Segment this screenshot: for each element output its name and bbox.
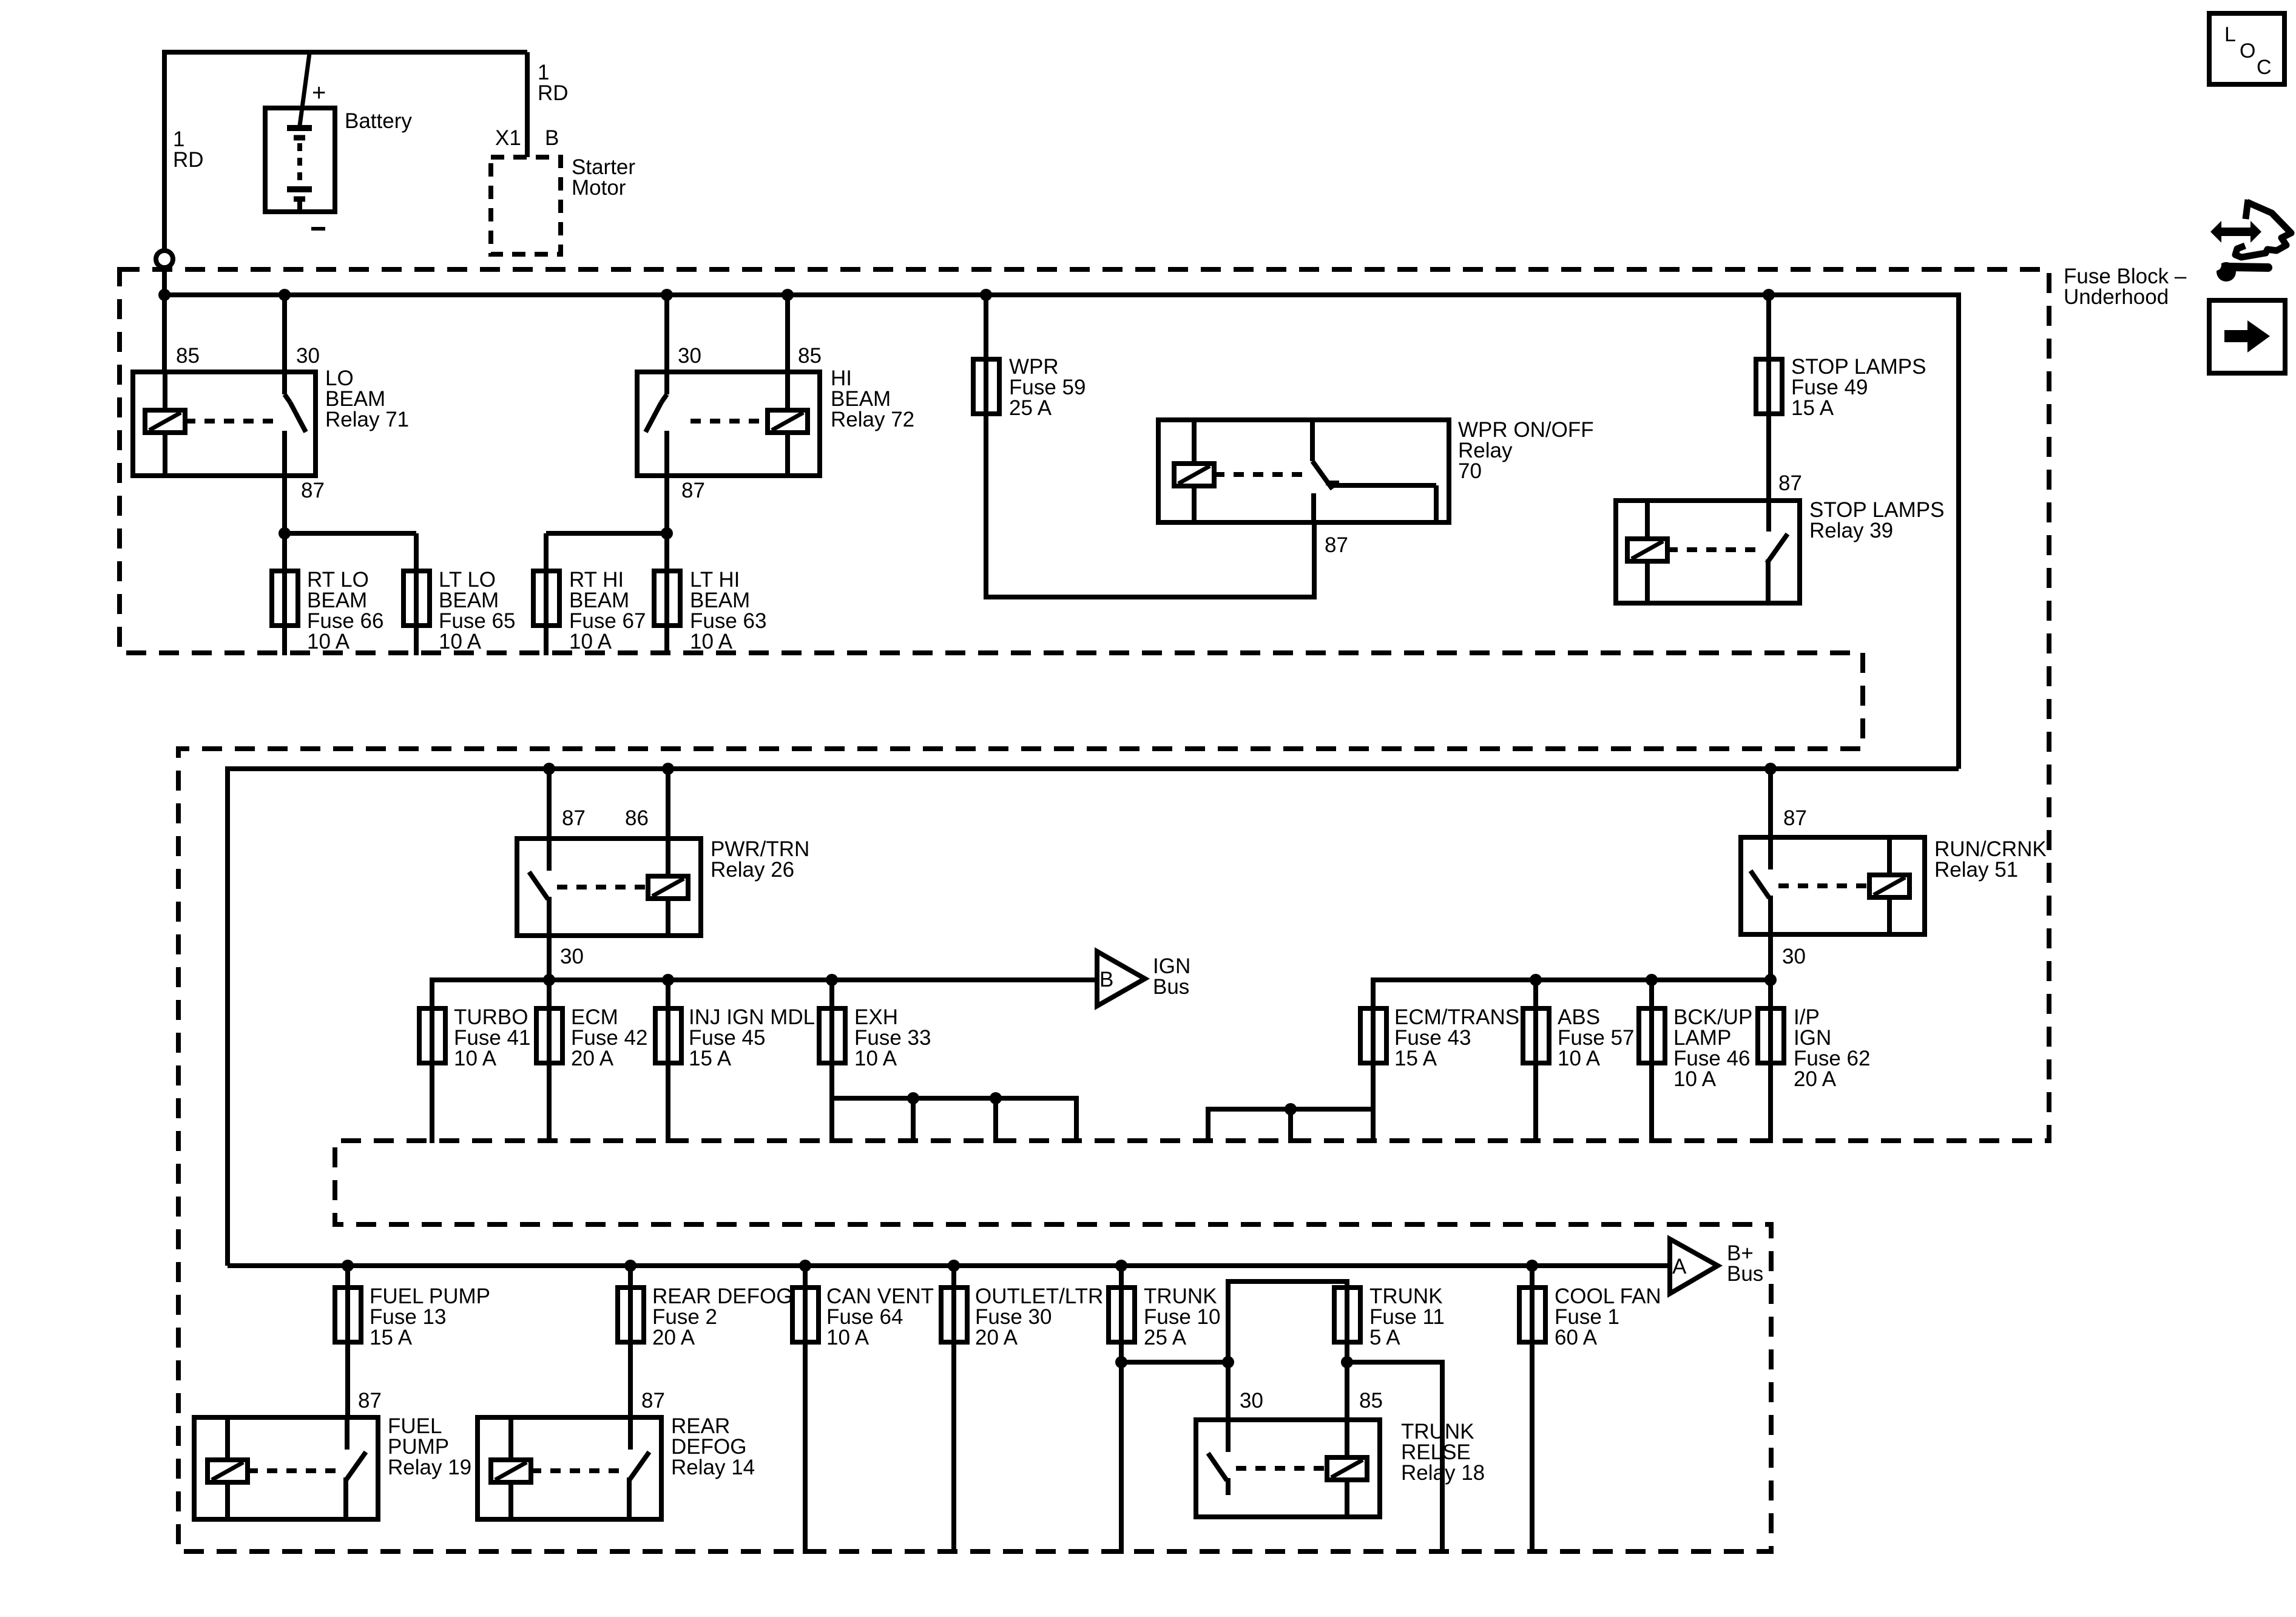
wire starter feed drop — [525, 52, 530, 157]
wire relay71 pin87 — [282, 476, 287, 533]
fuse block underhood dashed outline — [120, 269, 2049, 1551]
svg-text:Battery: Battery — [345, 109, 412, 133]
wire relay26 pin87 drop — [547, 769, 552, 839]
svg-text:25 A: 25 A — [1009, 396, 1052, 420]
svg-text:Relay 51: Relay 51 — [1934, 858, 2018, 882]
wire exh out d drop — [1074, 1096, 1079, 1143]
wire relay72 pin30 drop — [664, 295, 669, 372]
svg-text:RD: RD — [538, 81, 569, 105]
relay R18 TRUNK RELSE — [1196, 1420, 1380, 1517]
relay R39 STOP LAMPS — [1616, 501, 1800, 603]
wire fuse1 output — [1530, 1342, 1535, 1554]
wire exh out c drop — [993, 1098, 998, 1143]
wire exh splice bar — [832, 1096, 1076, 1101]
wire fuse67 output — [544, 571, 549, 655]
relay R19 FUEL PUMP — [194, 1417, 378, 1519]
node ign fuse45 — [662, 974, 674, 986]
fuse F11 TRUNK — [1334, 1288, 1360, 1342]
wire fuse11 top link — [1226, 1279, 1347, 1284]
wire left feed drop — [225, 766, 230, 1266]
svg-text:10 A: 10 A — [690, 630, 733, 653]
wire fuse49 output — [1766, 414, 1771, 501]
wire fuse30 output — [951, 1342, 956, 1554]
wire fuse41 drop — [430, 977, 434, 1068]
svg-text:10 A: 10 A — [1673, 1067, 1717, 1091]
fuse F13 FUEL PUMP — [335, 1288, 361, 1342]
svg-text:Relay 39: Relay 39 — [1809, 519, 1893, 542]
wire fuse62 output — [1768, 1063, 1773, 1143]
wire fuse63 output — [664, 533, 669, 655]
wire fuse65 stub — [414, 533, 419, 626]
svg-text:60 A: 60 A — [1555, 1326, 1598, 1349]
fuse F64 CAN VENT — [792, 1288, 819, 1342]
wire battery top feed — [164, 50, 527, 55]
wire hi beam fuse link — [546, 531, 667, 536]
svg-text:87: 87 — [1325, 533, 1348, 557]
wire relay72 pin85 drop — [785, 295, 790, 372]
svg-text:10 A: 10 A — [307, 630, 350, 653]
wire fuse2 output — [628, 1342, 633, 1417]
relay R72 HI BEAM — [637, 372, 820, 476]
node relay71 output — [279, 527, 291, 539]
svg-text:86: 86 — [625, 806, 649, 830]
fuse F33 EXH — [819, 1008, 845, 1063]
svg-text:A: A — [1672, 1255, 1687, 1278]
wire fuse66 output — [282, 533, 287, 655]
node bus2 fuse57 — [1530, 974, 1542, 986]
node bus relay72 pin85 — [782, 289, 794, 301]
wire relay72 pin87 — [664, 476, 669, 533]
node fuse10 splice — [1115, 1356, 1127, 1368]
relay R26 PWR/TRN — [517, 839, 701, 936]
wire relay70 pin87 riser — [1312, 522, 1317, 599]
bus triangle A B+ — [1670, 1239, 1718, 1294]
relay R51 RUN/CRNK — [1741, 837, 1925, 934]
svg-text:Bus: Bus — [1727, 1262, 1763, 1286]
battery — [265, 108, 335, 212]
svg-text:10 A: 10 A — [826, 1326, 869, 1349]
svg-text:87: 87 — [681, 479, 705, 502]
svg-text:Relay 71: Relay 71 — [325, 408, 409, 431]
node fuse43 out b — [1285, 1103, 1297, 1115]
wire relay18 pin30 drop — [1226, 1362, 1231, 1420]
starter motor — [491, 157, 561, 254]
node bus relay71 pin30 — [279, 289, 291, 301]
svg-text:20 A: 20 A — [1794, 1067, 1837, 1091]
svg-text:15 A: 15 A — [1394, 1047, 1437, 1070]
wire fuse43 out c drop — [1371, 1109, 1376, 1143]
svg-text:+: + — [312, 79, 326, 106]
wire trunk link — [1121, 1360, 1228, 1365]
svg-text:87: 87 — [562, 806, 586, 830]
node bus relay72 pin30 — [661, 289, 673, 301]
svg-text:5 A: 5 A — [1369, 1326, 1400, 1349]
fuse F30 OUTLET/LTR — [941, 1288, 967, 1342]
svg-text:O: O — [2240, 39, 2255, 62]
icon arrow box — [2209, 300, 2285, 373]
wire run/crnk bus — [1373, 977, 1771, 982]
wire fuse10 drop — [1119, 1266, 1124, 1347]
fuse F66 RT LO BEAM — [272, 571, 298, 626]
wire fuse59 drop — [984, 295, 988, 419]
svg-text:85: 85 — [1359, 1389, 1383, 1413]
wire fuse43 drop — [1371, 977, 1376, 1068]
relay R70 WPR ON/OFF — [1158, 420, 1449, 522]
svg-text:B: B — [1099, 968, 1113, 991]
svg-text:87: 87 — [1778, 471, 1802, 495]
fuse F62 I/P IGN — [1758, 1008, 1784, 1063]
svg-text:87: 87 — [641, 1389, 665, 1413]
svg-text:87: 87 — [1783, 806, 1807, 830]
svg-text:15 A: 15 A — [1791, 396, 1834, 420]
fuse F67 RT HI BEAM — [533, 571, 559, 626]
fuse F2 REAR DEFOG — [618, 1288, 644, 1342]
svg-text:10 A: 10 A — [1558, 1047, 1601, 1070]
node bus2 fuse46 — [1646, 974, 1658, 986]
svg-text:20 A: 20 A — [652, 1326, 695, 1349]
fuse F45 INJ IGN MDL — [655, 1008, 681, 1063]
wire fuse42 output — [547, 1063, 552, 1143]
icon LOC box — [2209, 13, 2284, 84]
svg-text:20 A: 20 A — [975, 1326, 1018, 1349]
svg-text:30: 30 — [678, 344, 701, 368]
svg-text:87: 87 — [358, 1389, 382, 1413]
wire fuse46 drop — [1649, 980, 1654, 1068]
wire battery positive slant lead — [300, 53, 309, 126]
node exh out b — [907, 1092, 919, 1104]
svg-text:30: 30 — [1240, 1389, 1263, 1413]
svg-text:10 A: 10 A — [569, 630, 612, 653]
fuse F42 ECM — [536, 1008, 562, 1063]
node bus fuse49 — [1763, 289, 1775, 301]
wire exh out b drop — [911, 1098, 916, 1143]
wire fuse49 drop — [1766, 295, 1771, 419]
node bus2 relay51 pin30 — [1764, 974, 1777, 986]
fuse F59 WPR — [973, 359, 999, 414]
svg-text:X1: X1 — [495, 126, 521, 150]
wire lo beam fuse link — [285, 531, 416, 536]
fuse F41 TURBO — [419, 1008, 445, 1063]
fuse F1 COOL FAN — [1519, 1288, 1545, 1342]
wire relay51 pin30 — [1768, 934, 1773, 980]
svg-text:30: 30 — [296, 344, 320, 368]
fuse F10 TRUNK — [1109, 1288, 1135, 1342]
fuse F57 ABS — [1523, 1008, 1549, 1063]
svg-text:15 A: 15 A — [370, 1326, 413, 1349]
node fuse11 splice — [1341, 1356, 1353, 1368]
wire ign bus — [432, 977, 1095, 982]
svg-text:Underhood: Underhood — [2064, 285, 2169, 309]
relay R14 REAR DEFOG — [478, 1417, 661, 1519]
icon power flow arrows and wrench — [2210, 200, 2291, 282]
wire fuse11 drop — [1345, 1279, 1349, 1347]
wire fuse67 stub — [544, 533, 549, 626]
svg-text:85: 85 — [176, 344, 200, 368]
wire fuse43 splice bar — [1208, 1107, 1373, 1112]
wire fuse43 out a drop — [1206, 1107, 1210, 1143]
wire fuse46 output — [1649, 1063, 1654, 1143]
node bus fuse59 — [980, 289, 992, 301]
wire fuse64 output — [803, 1342, 808, 1554]
svg-text:10 A: 10 A — [854, 1047, 897, 1070]
svg-text:Relay 14: Relay 14 — [671, 1456, 755, 1479]
wire fuse2 drop — [628, 1266, 633, 1347]
svg-text:10 A: 10 A — [439, 630, 482, 653]
wire fuse13 drop — [345, 1266, 350, 1347]
fuse F46 BCK/UP LAMP — [1639, 1008, 1665, 1063]
svg-text:RD: RD — [173, 148, 204, 172]
wire fuse1 drop — [1530, 1266, 1535, 1347]
wire fuse43 out b drop — [1288, 1109, 1293, 1143]
node battery splice — [156, 251, 173, 268]
wire splice to bus — [162, 268, 167, 372]
node relay72 output — [661, 527, 673, 539]
svg-text:Relay 19: Relay 19 — [388, 1456, 471, 1479]
node ign fuse42 — [543, 974, 555, 986]
wire fuse33 drop — [829, 980, 834, 1068]
svg-text:C: C — [2257, 56, 2272, 79]
relay R71 LO BEAM — [133, 372, 316, 476]
svg-text:25 A: 25 A — [1144, 1326, 1187, 1349]
node feed relay26 pin87 — [543, 763, 555, 775]
wire trunk release feed drop — [1440, 1360, 1445, 1554]
wire fuse10 output — [1119, 1342, 1124, 1554]
svg-text:30: 30 — [560, 945, 584, 968]
svg-text:30: 30 — [1782, 945, 1806, 968]
wire relay71 pin30 drop — [282, 295, 287, 372]
wire top battery bus — [164, 292, 1959, 297]
wire middle feed bus — [228, 766, 1959, 771]
fuse F43 ECM/TRANS — [1360, 1008, 1386, 1063]
wire fuse41 output — [430, 1063, 434, 1143]
node feed relay26 pin86 — [662, 763, 674, 775]
node b+ fuse1 — [1526, 1260, 1538, 1272]
wire trunk release feed across — [1347, 1360, 1442, 1365]
svg-text:Motor: Motor — [572, 176, 626, 200]
battery minus label — [311, 227, 325, 231]
fuse F63 LT HI BEAM — [654, 571, 680, 626]
svg-text:Relay 72: Relay 72 — [831, 408, 914, 431]
node b+ fuse64 — [799, 1260, 811, 1272]
wire relay51 pin87 drop — [1768, 769, 1773, 837]
svg-text:85: 85 — [798, 344, 822, 368]
svg-text:L: L — [2224, 23, 2236, 46]
node relay18 pin30 tap — [1222, 1356, 1234, 1368]
node exh out c — [990, 1092, 1002, 1104]
wire fuse45 drop — [666, 980, 670, 1068]
bus triangle B IGN — [1097, 951, 1145, 1006]
wire fuse59 output across — [984, 595, 1314, 599]
wire fuse65 output — [414, 571, 419, 655]
node feed relay51 pin87 — [1764, 763, 1777, 775]
wire fuse57 output — [1533, 1063, 1538, 1143]
wire fuse42 drop — [547, 980, 552, 1068]
wire fuse64 drop — [803, 1266, 808, 1347]
wire battery left drop — [162, 50, 167, 249]
wire fuse11 output — [1345, 1342, 1349, 1420]
node b+ fuse30 — [948, 1260, 960, 1272]
wire fuse33 output — [829, 1063, 834, 1143]
svg-text:B: B — [545, 126, 559, 150]
fuse F49 STOP LAMPS — [1756, 359, 1782, 414]
wire relay26 pin30 — [547, 936, 552, 980]
wire fuse59 output down — [984, 414, 988, 597]
wire fuse13 output — [345, 1342, 350, 1417]
wire fuse45 output — [666, 1063, 670, 1143]
wire fuse30 drop — [951, 1266, 956, 1347]
wire relay26 pin86 drop — [666, 769, 670, 839]
node b+ fuse2 — [624, 1260, 636, 1272]
wire bus right drop — [1956, 292, 1961, 769]
fuse F65 LT LO BEAM — [403, 571, 430, 626]
svg-text:87: 87 — [301, 479, 325, 502]
wire fuse57 drop — [1533, 980, 1538, 1068]
svg-text:Relay 18: Relay 18 — [1401, 1461, 1485, 1485]
node b+ fuse10 — [1115, 1260, 1127, 1272]
wire B+ bus — [228, 1263, 1670, 1268]
wire fuse11 riser — [1226, 1281, 1231, 1365]
svg-text:Relay 26: Relay 26 — [711, 858, 794, 882]
wire fuse43 output — [1371, 1063, 1376, 1109]
wire fuse62 drop — [1768, 980, 1773, 1068]
node b+ fuse13 — [342, 1260, 354, 1272]
svg-text:10 A: 10 A — [454, 1047, 497, 1070]
svg-text:70: 70 — [1458, 459, 1482, 483]
node bus left — [158, 289, 171, 301]
svg-text:15 A: 15 A — [689, 1047, 732, 1070]
svg-text:20 A: 20 A — [571, 1047, 614, 1070]
svg-text:Bus: Bus — [1153, 975, 1189, 999]
node ign fuse33 — [826, 974, 838, 986]
